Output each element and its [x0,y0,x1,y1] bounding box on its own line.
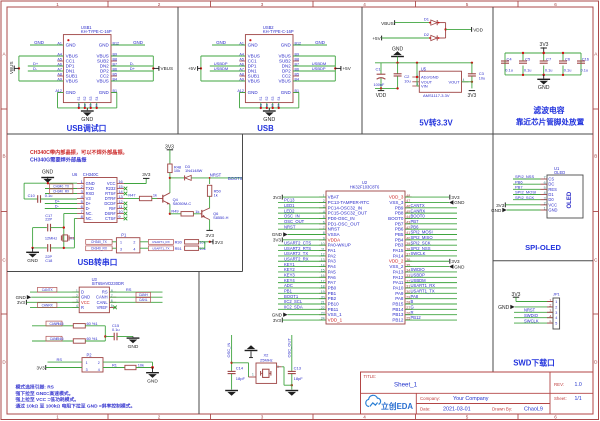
svg-text:GND: GND [538,85,550,91]
junction [96,107,98,109]
power flag 3V3 for U6 VCC [143,177,149,179]
pin header P2 [82,352,103,372]
wire GND left of USB2 [212,44,245,46]
svg-text:PB12: PB12 [411,315,422,320]
junction diodes [444,28,446,30]
wire VBUS to D1 [395,22,430,24]
svg-text:10u: 10u [479,76,485,80]
resistor R50 5k [207,185,221,197]
svg-text:C1: C1 [376,66,382,71]
svg-text:ChaoL9: ChaoL9 [524,406,543,412]
svg-text:3V3: 3V3 [273,195,282,200]
wire DP2 [111,70,153,72]
wire MCU pin 4 [278,212,326,214]
svg-text:GND: GND [27,258,38,264]
svg-text:C18: C18 [45,258,52,263]
svg-text:BOOT0: BOOT0 [411,214,426,219]
svg-text:4: 4 [463,78,465,82]
svg-text:SWDIO: SWDIO [524,313,538,318]
svg-text:PB5: PB5 [395,232,404,237]
wire 3V3 to P2 pin3 [46,367,82,369]
junction [272,107,274,109]
svg-text:VBUS: VBUS [161,66,174,71]
svg-text:模式选择引脚: RS: 模式选择引脚: RS [16,384,55,391]
svg-text:PA1: PA1 [328,248,337,253]
svg-text:4: 4 [544,191,546,195]
svg-text:VSSA: VSSA [328,232,340,237]
svg-text:PB6: PB6 [411,224,420,229]
svg-text:PA15: PA15 [393,248,404,253]
capacitor C14 18pF [228,365,246,389]
junction on right VBUS rail [334,67,336,69]
wire B1 drop [111,92,117,94]
svg-text:GND: GND [315,40,325,45]
svg-text:CANTX: CANTX [411,203,425,208]
wire SWD pin1 [516,301,553,303]
resistor R47 1k [128,192,157,200]
wire R51 bend up to rail [199,247,205,249]
wire VBUS lower right [111,80,153,82]
wire U6 pin8 to crystal [74,218,77,220]
wire filter top rail [505,52,581,54]
crystal X2 25MHz [252,352,279,383]
svg-text:VDD_2: VDD_2 [389,259,404,264]
wire DTR to R47 [124,198,139,200]
svg-text:S4: S4 [277,103,281,107]
svg-text:4: 4 [363,415,366,420]
wire to right power flag [335,67,340,69]
svg-text:PA11: PA11 [393,280,404,285]
svg-text:CH340G需要焊外部晶振: CH340G需要焊外部晶振 [30,155,87,163]
svg-text:GND: GND [66,43,77,48]
wire DN1 [28,70,64,72]
svg-text:SPI2_MISO: SPI2_MISO [411,235,434,240]
wire VBUS left rail [18,56,20,81]
wire VBUS lower left [201,80,246,82]
svg-text:R47: R47 [128,192,135,197]
svg-text:PB2: PB2 [328,296,337,301]
svg-text:GND: GND [147,379,158,385]
svg-text:5: 5 [549,320,551,324]
svg-text:C5: C5 [525,56,531,61]
wire RS right [109,291,162,293]
svg-text:S4: S4 [277,96,281,100]
svg-text:R: R [411,310,414,315]
wire shell pin drop [90,103,92,108]
junction C15 tap [104,335,106,337]
resistor R49 1k [171,208,199,216]
wire B1 drop [293,92,299,94]
svg-text:S8050M-C: S8050M-C [173,201,192,206]
svg-text:JP1: JP1 [553,292,560,297]
svg-text:6: 6 [554,415,557,420]
junction crystal bottom [63,247,65,249]
wire MCU pin 26 [405,314,457,316]
svg-text:5V转3.3V: 5V转3.3V [419,117,453,127]
net port CANTX [30,291,79,293]
svg-text:PB11: PB11 [328,307,339,312]
svg-text:CANRX: CANRX [411,208,426,213]
svg-text:PD1-OSC_OUT: PD1-OSC_OUT [328,221,360,226]
svg-text:PC15-OSC32_OUT: PC15-OSC32_OUT [328,211,368,216]
svg-text:GND: GND [272,312,283,317]
svg-text:OSC_IN: OSC_IN [284,214,300,219]
svg-text:CTS#: CTS# [105,216,116,221]
svg-text:100uF: 100uF [374,83,385,87]
wire U5 GND/ADJ vertical [416,63,418,86]
section divider vertical x=178 [177,7,179,134]
wire MCU pin 20 [278,298,326,300]
svg-text:R30: R30 [175,240,183,245]
svg-text:KEY2: KEY2 [284,267,295,272]
junction [78,107,80,109]
svg-text:PB3: PB3 [395,243,404,248]
svg-text:SPI2_MOSI: SPI2_MOSI [411,230,433,235]
wire SWD NRST [514,311,553,313]
svg-text:靠近芯片管脚处放置: 靠近芯片管脚处放置 [516,117,585,127]
svg-text:OSC_OUT: OSC_OUT [284,219,305,224]
svg-text:7: 7 [544,176,546,180]
capacitor C4 0.1u [501,56,513,72]
svg-text:PA5: PA5 [328,269,337,274]
svg-text:CH340_TX: CH340_TX [53,185,70,189]
svg-text:NRST: NRST [524,308,536,313]
svg-text:PA6: PA6 [328,275,337,280]
svg-text:C7: C7 [546,56,552,61]
wire D- row [45,208,77,210]
svg-text:SWCLK: SWCLK [411,251,426,256]
junction 3V3 tap [543,52,545,54]
svg-text:0.1u: 0.1u [112,327,120,332]
wire GND to U6 pin1 [24,182,77,184]
resistor R46 60ohm [56,336,97,343]
svg-text:PD0-OSC_IN: PD0-OSC_IN [328,216,355,221]
svg-text:USBDP: USBDP [411,272,426,277]
wire VBUS right rail [334,56,336,81]
svg-text:4: 4 [363,2,366,7]
svg-text:D-: D- [55,204,60,209]
svg-text:R1: R1 [112,362,117,367]
net port USART1_TX with R51 [140,247,149,249]
junction R1/P2 node [151,366,154,369]
ground symbol filter [543,74,545,76]
svg-text:VDD: VDD [376,93,387,99]
svg-text:PA0-WKUP: PA0-WKUP [328,243,351,248]
svg-text:OSC_IN: OSC_IN [226,342,231,357]
resistor R48 10k [168,164,181,173]
svg-text:3: 3 [261,2,264,7]
wire MCU pin 22 [278,308,326,310]
wire MCU pin 17 [278,282,326,284]
IC U6 CH340C [72,172,124,222]
svg-text:U6: U6 [72,172,78,177]
svg-text:GND: GND [216,40,226,45]
wire shell pin drop [84,103,86,108]
svg-text:VBUS: VBUS [97,79,109,84]
net port CANH [136,292,151,297]
svg-text:PB13: PB13 [392,312,404,317]
svg-text:R49: R49 [171,208,178,213]
svg-text:4: 4 [549,315,551,319]
svg-text:0.1u: 0.1u [524,67,532,72]
svg-text:+5V: +5V [343,66,352,71]
svg-text:PB12: PB12 [392,318,404,323]
wire DN2 [293,65,335,67]
wire MCU pin 5 [278,217,326,219]
svg-text:S1: S1 [77,96,81,100]
svg-text:GND: GND [248,90,259,95]
resistor R30 10k [185,240,199,244]
svg-text:3: 3 [416,82,418,86]
wire GND right of USB1 [111,44,145,46]
svg-text:2: 2 [158,415,161,420]
wire crystal pin2 to C13 bottom [277,366,282,368]
wire shell pin drop [78,103,80,108]
wire OSC_OUT vertical [291,335,293,371]
no-connect X on U6 pin 15 [124,187,128,191]
svg-text:VIN: VIN [421,84,428,89]
svg-text:强下拉至 GND=高速模式。: 强下拉至 GND=高速模式。 [16,390,74,397]
svg-text:1k: 1k [195,209,199,214]
svg-text:5: 5 [466,2,469,7]
wire MCU pin 31 [405,287,457,289]
wire to right power flag [153,67,158,69]
svg-text:10u: 10u [404,79,410,83]
svg-text:C13: C13 [294,365,302,370]
wire +5V to D2 [382,37,430,39]
wire U6 pin7 to crystal [64,213,77,215]
wire MCU pin 27 [405,308,457,310]
no-connect X on U6 pin 9 [124,217,128,221]
svg-text:GND: GND [498,305,510,311]
wire down left for C10 [23,183,25,199]
wire termination rail [104,326,106,341]
capacitor C13 18pF [288,365,303,389]
wire R50 to Q6 collector [209,196,211,208]
wire GND right of USB2 [293,44,327,46]
svg-text:CH340_RX: CH340_RX [53,190,70,194]
junction GND on rail [396,62,398,64]
svg-text:PA7: PA7 [328,280,337,285]
wire CANH right [109,296,162,298]
svg-text:BOOT0: BOOT0 [228,176,243,181]
section divider vertical x=242.5 [242,134,244,272]
wire filter right edge [580,53,582,75]
wire A12 drop [58,92,64,94]
wire DN2 [111,65,153,67]
svg-text:USBDM: USBDM [214,66,228,71]
svg-text:D1: D1 [424,16,430,21]
svg-text:IIC2_SDA: IIC2_SDA [284,305,303,310]
junction pullup rail [209,241,211,243]
wire OLED pin 7 [513,178,541,180]
svg-text:3: 3 [544,196,546,200]
svg-text:GND: GND [99,90,110,95]
wire MCU pin 29 [405,298,457,300]
svg-text:S2: S2 [83,103,87,107]
crystal X1 12MHz [45,235,75,241]
svg-text:SPI2_SCK: SPI2_SCK [515,195,534,200]
svg-text:KH-TYPE-C-16P: KH-TYPE-C-16P [81,29,112,34]
svg-text:0.1u: 0.1u [545,67,553,72]
svg-text:Sheet_1: Sheet_1 [394,382,418,389]
svg-text:PB9: PB9 [395,205,404,210]
svg-text:1N4148W: 1N4148W [185,168,203,173]
net port CH340_TX [45,188,77,190]
svg-text:VOUT: VOUT [448,79,460,84]
svg-text:PA13: PA13 [393,269,404,274]
junction OSC_IN [230,362,232,364]
power flag right (+5V) [340,66,342,71]
svg-text:TITLE:: TITLE: [364,374,377,379]
svg-text:USBDM: USBDM [411,278,427,283]
svg-text:SWDIO: SWDIO [411,267,426,272]
wire OLED pin 3 [513,199,541,201]
svg-text:NC.: NC. [86,216,93,221]
junction VOUT [471,81,473,83]
svg-text:0.1u: 0.1u [564,67,572,72]
svg-text:CH340_TX: CH340_TX [91,240,108,244]
wire VBUS left rail [200,56,202,81]
svg-text:GND: GND [454,200,465,205]
svg-text:3V3: 3V3 [206,233,215,239]
svg-text:VDD_1: VDD_1 [328,318,343,323]
wire SWD SWCLK [514,322,553,324]
ground flag pin 47 [405,201,449,203]
svg-text:3V3: 3V3 [215,240,224,245]
svg-text:PA9: PA9 [395,291,404,296]
svg-text:BOOT0: BOOT0 [388,216,404,221]
power flag +5V left [198,67,201,69]
wire MCU pin 13 [278,260,326,262]
power flag 3V3 below Q6 [206,229,212,231]
svg-text:强上拉至 VCC =低功耗模式。: 强上拉至 VCC =低功耗模式。 [16,396,80,403]
wire MCU pin 25 [405,319,457,321]
svg-text:GND: GND [34,40,44,45]
svg-text:VBUS: VBUS [9,61,14,74]
svg-text:PB1: PB1 [328,291,337,296]
wire MCU pin 10 [278,244,326,246]
wire A12 drop [240,92,246,94]
junction on right VBUS rail [152,67,154,69]
svg-text:SWCLK: SWCLK [524,318,539,323]
wire VBUS upper right [111,55,153,57]
wire P2 pin4 to R1 [103,367,125,369]
power flag 3V3 output [469,90,475,92]
svg-text:PB4: PB4 [395,237,404,242]
svg-text:GND: GND [99,43,110,48]
wire MCU pin 16 [278,276,326,278]
svg-text:6: 6 [544,181,546,185]
svg-text:1/1: 1/1 [575,396,582,402]
svg-text:LED2: LED2 [284,208,295,213]
wire MCU pin 32 [405,282,457,284]
capacitor C7 0.1u [540,52,553,76]
svg-text:USB调试口: USB调试口 [67,123,107,133]
wire OLED pin 6 [513,183,541,185]
wire MCU pin 38 [405,250,457,252]
svg-text:1k: 1k [153,192,157,197]
section divider vertical x=362 [361,7,363,134]
junction [266,107,268,109]
svg-text:PA8: PA8 [395,296,404,301]
svg-text:1: 1 [544,207,546,211]
wire R48 to node [169,173,171,193]
svg-text:2: 2 [158,2,161,7]
net port CH340_RX to P1 [112,247,116,249]
wire VBUS lower right [293,80,335,82]
wire bottom GND bus [58,107,117,109]
wire OLED pin 5 [513,188,541,190]
connector USB2 KH-TYPE-C-16P [237,25,301,103]
svg-text:4: 4 [98,368,100,372]
section divider vertical x=199 (CAN right edge) [198,272,200,415]
svg-text:3V3: 3V3 [273,318,282,323]
wire MCU pin 34 [405,271,457,273]
junction Q4 emitter [169,213,171,215]
svg-text:C4: C4 [507,56,513,61]
svg-text:2: 2 [98,361,100,365]
svg-text:USART2_RX: USART2_RX [284,256,309,261]
svg-text:3: 3 [120,248,122,252]
wire MCU pin 3 [278,207,326,209]
svg-text:S2: S2 [83,96,87,100]
wire MCU pin 43 [405,223,457,225]
svg-text:10k: 10k [138,362,144,367]
svg-text:SPI2_NSS: SPI2_NSS [411,246,431,251]
net port USART1_RX with R30 [140,241,149,243]
wire shell pin drop [278,103,280,108]
net port CANH termination [32,325,73,327]
junction GND wire [47,182,49,184]
pin header JP1 [547,292,560,330]
wire MCU pin 28 [405,303,457,305]
regulator U5 AMS1117-3.3V [416,67,464,99]
svg-text:PB0: PB0 [328,285,337,290]
wire 3V3 to R48 [169,150,171,164]
svg-text:2: 2 [544,202,546,206]
svg-text:D+: D+ [130,66,136,71]
MCU U2 HK32F103C8T6 [319,180,412,324]
svg-text:P2: P2 [87,352,93,357]
svg-text:B: B [594,154,597,159]
wire shell pin drop [96,103,98,108]
ground flag pin 35 [405,266,449,268]
no-connect X on U6 pin 14 [124,192,128,196]
junction [90,107,92,109]
svg-text:REV:: REV: [554,382,564,387]
capacitor C10 0.1u [28,193,53,203]
wire Q4 emitter down [169,204,171,214]
diode D1 [424,16,446,25]
svg-text:GND: GND [491,208,502,213]
svg-text:PB6: PB6 [395,227,404,232]
svg-text:SPI-OLED: SPI-OLED [525,243,561,252]
svg-text:PC13: PC13 [284,198,295,203]
svg-text:Date:: Date: [420,406,431,411]
capacitor C17 22P [33,213,64,232]
svg-text:18pF: 18pF [236,376,246,381]
junction C3 tap on rail [471,62,473,64]
svg-text:USART1_TX: USART1_TX [152,247,169,251]
svg-text:SWD下载口: SWD下载口 [513,357,555,367]
wire R45 to rail [85,325,105,327]
svg-text:RS: RS [57,357,63,362]
svg-text:3V3: 3V3 [142,172,151,177]
svg-text:C10: C10 [28,193,36,198]
resistor R45 60ohm [56,321,97,328]
wire DP2 [293,70,335,72]
